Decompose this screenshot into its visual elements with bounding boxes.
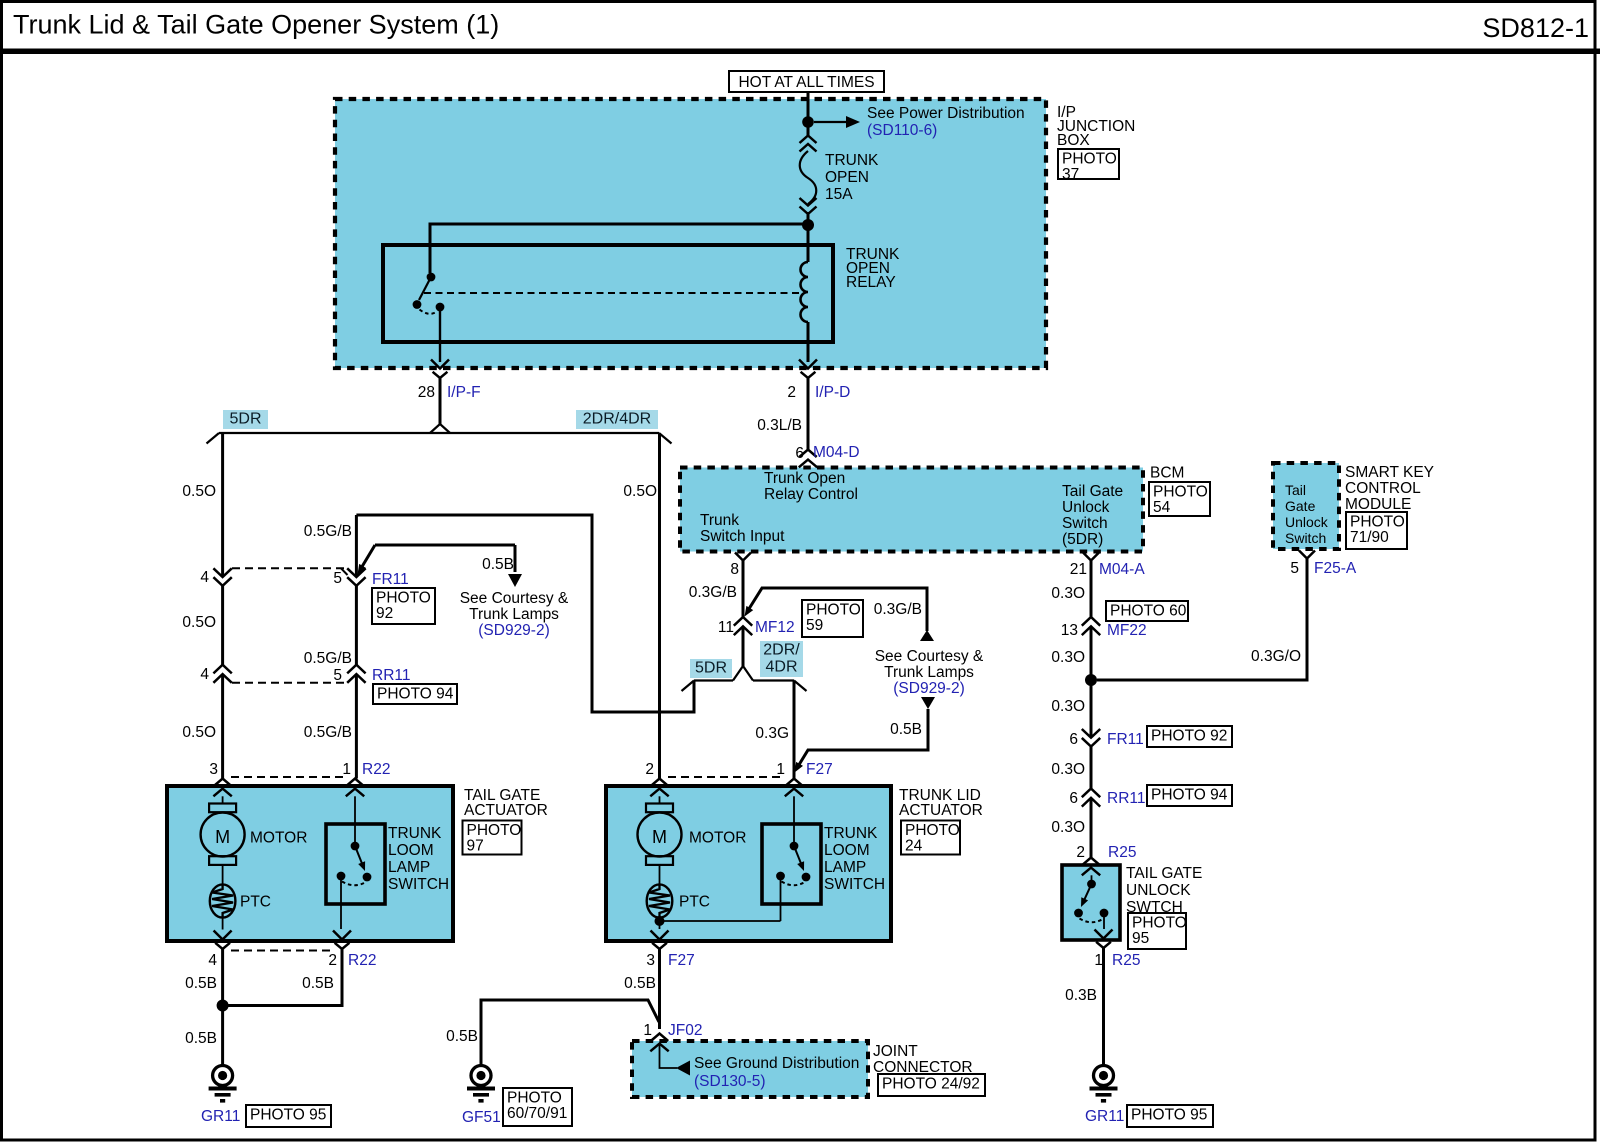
trunk lid actuator photo ref — [901, 821, 960, 855]
svg-text:See Courtesy &: See Courtesy & — [875, 648, 984, 665]
relay switch output wire — [439, 311, 441, 362]
svg-text:37: 37 — [1062, 166, 1079, 183]
svg-text:0.3G/B: 0.3G/B — [874, 601, 922, 618]
wire 0.5G/B mid vertical — [355, 586, 358, 665]
svg-text:59: 59 — [806, 617, 823, 634]
svg-text:PHOTO: PHOTO — [376, 590, 431, 607]
svg-text:RR11: RR11 — [1107, 790, 1145, 807]
svg-text:R25: R25 — [1112, 952, 1140, 969]
svg-text:4DR: 4DR — [765, 659, 797, 676]
svg-text:SWITCH: SWITCH — [824, 876, 885, 893]
GF51 photo ref — [503, 1088, 572, 1126]
connector RR11 pin 5 — [347, 665, 365, 674]
svg-text:5: 5 — [333, 667, 342, 684]
svg-text:95: 95 — [1132, 930, 1149, 947]
trunk loom lamp switch box (trunk lid) — [762, 824, 821, 904]
connector pin 1 F27 into trunk lid actuator — [785, 779, 802, 787]
BCM photo ref — [1149, 482, 1210, 516]
connector pin 2 R22 exit — [333, 931, 351, 940]
svg-text:PHOTO 94: PHOTO 94 — [1151, 787, 1228, 804]
svg-text:PHOTO 24/92: PHOTO 24/92 — [882, 1076, 980, 1093]
node: relay feed junction — [802, 219, 814, 231]
svg-text:R22: R22 — [348, 952, 376, 969]
connector pin 1 JF02 into joint connector — [651, 1034, 668, 1042]
svg-text:15A: 15A — [825, 186, 853, 203]
wire 0.3O RR11 to R25 — [1090, 798, 1093, 858]
RR11 right photo ref — [1147, 785, 1232, 806]
svg-text:Trunk Open: Trunk Open — [764, 470, 845, 487]
connector FR11 pin 5 — [347, 568, 365, 577]
0.5B branch to courtesy lamps (left) — [375, 544, 515, 547]
PHOTO 60 ref — [1106, 601, 1188, 621]
wire 0.3L/B I/P-D to M04-D — [807, 378, 810, 450]
svg-text:6: 6 — [1069, 790, 1078, 807]
svg-text:(SD130-5): (SD130-5) — [694, 1073, 766, 1090]
svg-text:LAMP: LAMP — [388, 859, 430, 876]
GR11 photo ref — [246, 1105, 331, 1127]
trunk lid actuator box — [606, 786, 891, 941]
wire 0.3G/B from pin 8 — [742, 561, 745, 618]
0.3G/B branch to courtesy lamps (middle) — [747, 588, 927, 631]
svg-text:0.3O: 0.3O — [1051, 585, 1085, 602]
FR11 right photo ref — [1147, 726, 1232, 747]
svg-text:0.3O: 0.3O — [1051, 698, 1085, 715]
wire 0.5O 5DR branch lower — [221, 674, 224, 778]
wire 0.5G/B upper vertical — [355, 515, 358, 577]
connector pin 8 BCM exit — [735, 553, 751, 561]
unlock switch photo ref — [1128, 913, 1186, 949]
svg-text:0.5G/B: 0.5G/B — [304, 523, 352, 540]
svg-text:0.3G/O: 0.3G/O — [1251, 648, 1301, 665]
svg-text:3: 3 — [209, 761, 218, 778]
svg-text:PHOTO: PHOTO — [1350, 514, 1405, 531]
wire I/P-F down to split — [439, 378, 442, 425]
svg-text:0.5O: 0.5O — [182, 614, 216, 631]
connector pin 3 F27 exit — [651, 931, 669, 940]
svg-text:(5DR): (5DR) — [1062, 531, 1103, 548]
svg-text:Trunk Lamps: Trunk Lamps — [469, 606, 559, 623]
svg-text:Tail Gate: Tail Gate — [1062, 483, 1123, 500]
connector pin 3 into tail gate actuator — [214, 779, 231, 787]
svg-text:1: 1 — [776, 761, 785, 778]
PTC thermistor (tail gate) — [222, 865, 224, 884]
svg-text:PHOTO: PHOTO — [1062, 151, 1117, 168]
tag 2DR/4DR (MF12 branch) — [760, 641, 803, 677]
relay actuation dashed link — [424, 292, 800, 294]
connector FR11 pin 6 (right) — [1082, 729, 1100, 738]
svg-text:Relay Control: Relay Control — [764, 486, 858, 503]
svg-text:4: 4 — [200, 666, 209, 683]
HOT AT ALL TIMES tag — [729, 71, 884, 92]
connector RR11 pin 6 (right) — [1082, 789, 1100, 798]
svg-text:2DR/: 2DR/ — [763, 642, 800, 659]
svg-text:PHOTO 94: PHOTO 94 — [377, 686, 454, 703]
dashed connector link FR11 — [232, 567, 347, 569]
svg-text:M: M — [215, 827, 230, 847]
wire 0.5O 5DR branch mid — [221, 586, 224, 665]
svg-text:ACTUATOR: ACTUATOR — [899, 802, 983, 819]
wire from HOT AT ALL TIMES to fuse — [807, 92, 810, 136]
svg-text:TAIL GATE: TAIL GATE — [1126, 865, 1202, 882]
wire 0.3B to ground — [1102, 948, 1105, 1059]
svg-text:Gate: Gate — [1285, 498, 1316, 514]
node: power feed junction — [802, 116, 814, 128]
svg-text:MF22: MF22 — [1107, 622, 1147, 639]
svg-text:BCM: BCM — [1150, 465, 1184, 482]
svg-text:M04-D: M04-D — [813, 444, 860, 461]
0.5B wire to ground GF51 — [481, 1000, 659, 1059]
connector pin 2 F27 into trunk lid actuator — [651, 779, 668, 787]
svg-text:HOT AT ALL TIMES: HOT AT ALL TIMES — [738, 74, 874, 91]
node: smart key junction — [1085, 674, 1097, 686]
wire 0.3O MF22 to junction — [1090, 626, 1093, 680]
svg-text:13: 13 — [1061, 622, 1078, 639]
trunk open relay box — [383, 245, 833, 342]
svg-text:Trunk Lid & Tail Gate Opener S: Trunk Lid & Tail Gate Opener System (1) — [13, 10, 499, 40]
svg-text:TRUNK: TRUNK — [825, 152, 879, 169]
wire 0.5G/B lower vertical — [355, 674, 358, 778]
dashed connector link F27 — [668, 776, 785, 778]
svg-text:TRUNK: TRUNK — [824, 825, 878, 842]
wire fuse to relay junction — [807, 212, 810, 226]
svg-text:SMART KEY: SMART KEY — [1345, 464, 1434, 481]
svg-text:8: 8 — [730, 561, 739, 578]
svg-text:M: M — [652, 827, 667, 847]
svg-text:PHOTO: PHOTO — [1153, 484, 1208, 501]
PTC thermistor (trunk lid) — [659, 865, 661, 884]
svg-text:R22: R22 — [362, 761, 390, 778]
tag 5DR (MF12 branch) — [690, 659, 732, 678]
svg-text:28: 28 — [418, 384, 435, 401]
relay coil — [807, 224, 810, 262]
svg-text:TRUNK: TRUNK — [388, 825, 442, 842]
tail gate unlock switch contacts — [1091, 875, 1093, 880]
svg-text:0.5B: 0.5B — [482, 556, 514, 573]
wire 0.5B from pin 2 — [228, 949, 342, 1006]
svg-text:RR11: RR11 — [372, 667, 410, 684]
connector pin 5 F25-A exit — [1299, 551, 1315, 559]
svg-text:Switch: Switch — [1062, 515, 1108, 532]
connector pin 6 M04-D into BCM — [799, 450, 816, 458]
connector I/P-D pin 2 — [799, 360, 817, 369]
connector pin 2 R25 into tail gate unlock switch — [1082, 858, 1099, 866]
svg-text:SD812-1: SD812-1 — [1482, 13, 1589, 43]
svg-text:JF02: JF02 — [668, 1022, 702, 1039]
svg-text:See Courtesy &: See Courtesy & — [460, 590, 569, 607]
dashed connector link RR11 — [232, 682, 347, 684]
svg-text:ACTUATOR: ACTUATOR — [464, 802, 548, 819]
svg-text:0.3O: 0.3O — [1051, 761, 1085, 778]
svg-text:0.5B: 0.5B — [446, 1028, 478, 1045]
svg-text:GR11: GR11 — [1085, 1108, 1124, 1125]
svg-text:Switch: Switch — [1285, 530, 1326, 546]
connector pin 1 R22 into tail gate actuator — [346, 779, 363, 787]
tag 2DR/4DR right branch — [576, 410, 658, 429]
wire 0.3G/O smart key to junction — [1097, 559, 1307, 681]
I/P junction box photo ref — [1058, 149, 1119, 179]
svg-text:SWITCH: SWITCH — [388, 876, 449, 893]
svg-text:2: 2 — [787, 384, 796, 401]
svg-text:PHOTO: PHOTO — [806, 602, 861, 619]
see power distribution arrow — [814, 121, 846, 123]
svg-text:Unlock: Unlock — [1285, 514, 1329, 530]
svg-text:PTC: PTC — [240, 894, 271, 911]
svg-text:97: 97 — [467, 838, 484, 855]
svg-text:0.3G: 0.3G — [755, 725, 789, 742]
svg-text:OPEN: OPEN — [825, 169, 869, 186]
svg-text:Trunk Lamps: Trunk Lamps — [884, 664, 974, 681]
svg-text:21: 21 — [1070, 561, 1087, 578]
svg-text:Trunk: Trunk — [700, 512, 739, 529]
tail gate actuator photo ref — [463, 821, 522, 855]
node: actuator internal junction — [655, 916, 665, 926]
svg-text:GF51: GF51 — [462, 1109, 501, 1126]
svg-text:MOTOR: MOTOR — [689, 830, 746, 847]
svg-text:MODULE: MODULE — [1345, 496, 1411, 513]
wire 0.5O 2DR/4DR branch — [658, 433, 661, 779]
motor M (tail gate) — [222, 796, 224, 803]
0.5B wire from courtesy lamps to F27 — [921, 697, 935, 709]
relay switch — [427, 273, 436, 282]
svg-text:0.3O: 0.3O — [1051, 819, 1085, 836]
svg-text:2: 2 — [645, 761, 654, 778]
svg-text:1: 1 — [1094, 952, 1103, 969]
ground GR11 (tail gate) — [221, 1059, 224, 1065]
svg-text:PHOTO 60: PHOTO 60 — [1110, 603, 1187, 620]
svg-text:6: 6 — [1069, 731, 1078, 748]
MF12 photo ref — [802, 600, 863, 637]
svg-text:M04-A: M04-A — [1099, 561, 1145, 578]
wire junction to relay switch feed — [430, 224, 808, 273]
svg-text:See Ground Distribution: See Ground Distribution — [694, 1055, 859, 1072]
tail gate unlock switch box — [1062, 865, 1120, 940]
joint connector box — [632, 1041, 868, 1097]
ground GR11 (right) — [1102, 1059, 1105, 1065]
svg-text:(SD929-2): (SD929-2) — [893, 680, 965, 697]
svg-text:F25-A: F25-A — [1314, 560, 1357, 577]
connector I/P-F pin 28 — [431, 360, 449, 369]
svg-text:0.3L/B: 0.3L/B — [757, 417, 802, 434]
svg-text:LAMP: LAMP — [824, 859, 866, 876]
BCM box — [680, 468, 1143, 552]
svg-text:11: 11 — [718, 619, 734, 636]
svg-text:F27: F27 — [668, 952, 695, 969]
svg-text:1: 1 — [643, 1022, 652, 1039]
wire below MF12 — [742, 626, 745, 666]
svg-text:UNLOCK: UNLOCK — [1126, 882, 1191, 899]
connector MF22 pin 13 — [1082, 617, 1100, 626]
svg-text:PHOTO 95: PHOTO 95 — [1131, 1107, 1207, 1124]
svg-text:60/70/91: 60/70/91 — [507, 1105, 567, 1122]
wire 0.3O FR11 to RR11 — [1090, 746, 1093, 788]
svg-text:6: 6 — [795, 445, 804, 462]
svg-text:0.5B: 0.5B — [890, 721, 922, 738]
connector pin 21 M04-A BCM exit — [1083, 553, 1099, 561]
smart key photo ref — [1346, 512, 1407, 549]
svg-text:0.5B: 0.5B — [185, 1030, 217, 1047]
svg-text:92: 92 — [376, 605, 393, 622]
svg-text:Unlock: Unlock — [1062, 499, 1110, 516]
svg-text:3: 3 — [646, 952, 655, 969]
svg-text:MF12: MF12 — [755, 619, 795, 636]
node: ground junction — [217, 1000, 229, 1012]
svg-text:5DR: 5DR — [229, 411, 261, 428]
svg-text:(SD110-6): (SD110-6) — [867, 122, 937, 139]
svg-text:4: 4 — [200, 569, 209, 586]
svg-text:I/P-D: I/P-D — [815, 384, 850, 401]
svg-text:CONTROL: CONTROL — [1345, 480, 1421, 497]
RR11 photo ref — [373, 684, 457, 704]
wire 0.3O M04-A to MF22 — [1090, 561, 1093, 618]
connector pin 1 R25 exit — [1095, 930, 1113, 939]
connector MF12 pin 11 — [734, 617, 752, 626]
trunk loom lamp switch box (tail gate) — [326, 824, 385, 904]
svg-text:0.5B: 0.5B — [624, 975, 656, 992]
svg-text:PHOTO 92: PHOTO 92 — [1151, 728, 1227, 745]
svg-text:1: 1 — [342, 761, 351, 778]
svg-text:JOINT: JOINT — [873, 1043, 918, 1060]
svg-text:F27: F27 — [806, 761, 833, 778]
svg-text:FR11: FR11 — [1107, 731, 1144, 748]
svg-text:PHOTO: PHOTO — [507, 1090, 562, 1107]
svg-text:0.5O: 0.5O — [182, 724, 216, 741]
svg-text:5: 5 — [333, 570, 342, 587]
svg-text:(SD929-2): (SD929-2) — [478, 622, 550, 639]
svg-text:LOOM: LOOM — [388, 842, 434, 859]
motor M (trunk lid) — [659, 796, 661, 803]
wire 0.5O 5DR branch upper — [221, 433, 224, 577]
svg-text:5: 5 — [1290, 560, 1299, 577]
svg-text:PHOTO 95: PHOTO 95 — [250, 1107, 326, 1124]
svg-text:0.5B: 0.5B — [302, 975, 334, 992]
smart key control module box — [1273, 463, 1339, 549]
svg-text:PHOTO: PHOTO — [1132, 915, 1187, 932]
svg-text:I/P-F: I/P-F — [447, 384, 481, 401]
wire inside joint connector — [660, 1044, 678, 1068]
svg-text:71/90: 71/90 — [1350, 529, 1389, 546]
svg-text:2: 2 — [328, 952, 337, 969]
branch split 5DR / 2DR-4DR (MF12) — [733, 666, 753, 681]
svg-text:BOX: BOX — [1057, 132, 1090, 149]
svg-text:R25: R25 — [1108, 844, 1136, 861]
svg-text:0.5B: 0.5B — [185, 975, 217, 992]
svg-text:Switch Input: Switch Input — [700, 528, 785, 545]
I/P junction box — [335, 99, 1046, 368]
ground GF51 — [480, 1059, 483, 1065]
wire 0.5B from pin 4 — [221, 949, 224, 1059]
connector pin 4 R22 exit — [214, 931, 232, 940]
FR11 photo ref — [372, 588, 435, 624]
svg-text:FR11: FR11 — [372, 571, 409, 588]
trunk loom lamp switch (trunk lid) — [793, 796, 795, 842]
svg-text:LOOM: LOOM — [824, 842, 870, 859]
GR11 right photo ref — [1127, 1105, 1213, 1127]
wire 0.3O junction to FR11 — [1090, 680, 1093, 738]
svg-text:RELAY: RELAY — [846, 274, 896, 291]
svg-text:4: 4 — [208, 952, 217, 969]
dashed connector link R22 bottom — [231, 950, 333, 952]
wire 0.3G 2DR/4DR branch to F27 — [793, 681, 796, 779]
svg-text:GR11: GR11 — [201, 1108, 240, 1125]
connector pin 4 (front) — [213, 568, 231, 577]
svg-text:54: 54 — [1153, 499, 1171, 516]
wire 0.5B from pin 3 to JF02 — [658, 949, 661, 1029]
joint connector photo ref — [878, 1074, 985, 1096]
connector pin 4 (rear) — [213, 665, 231, 674]
svg-text:PTC: PTC — [679, 894, 710, 911]
svg-text:0.5G/B: 0.5G/B — [304, 650, 352, 667]
branch split 5DR / 2DR-4DR — [430, 424, 450, 433]
svg-text:PHOTO: PHOTO — [905, 822, 960, 839]
fuse TRUNK OPEN 15A — [800, 136, 817, 144]
svg-text:0.5G/B: 0.5G/B — [304, 724, 352, 741]
svg-text:PHOTO: PHOTO — [467, 822, 522, 839]
dashed connector link R22 top — [231, 776, 346, 778]
svg-text:Tail: Tail — [1285, 482, 1306, 498]
tag 5DR left branch — [223, 410, 268, 429]
trunk loom lamp switch (tail gate) — [354, 796, 356, 842]
svg-text:0.5O: 0.5O — [623, 483, 657, 500]
header rule — [0, 49, 1600, 55]
svg-text:See Power Distribution: See Power Distribution — [867, 105, 1025, 122]
svg-text:0.5O: 0.5O — [182, 483, 216, 500]
svg-text:24: 24 — [905, 838, 923, 855]
svg-text:MOTOR: MOTOR — [250, 830, 307, 847]
tail gate actuator box — [167, 786, 453, 941]
svg-text:2DR/4DR: 2DR/4DR — [583, 411, 651, 428]
svg-text:5DR: 5DR — [695, 660, 727, 677]
svg-text:0.3G/B: 0.3G/B — [689, 584, 737, 601]
0.5G/B routing wire — [356, 515, 694, 712]
svg-text:2: 2 — [1076, 844, 1085, 861]
svg-text:0.3B: 0.3B — [1065, 987, 1097, 1004]
svg-text:0.3O: 0.3O — [1051, 649, 1085, 666]
